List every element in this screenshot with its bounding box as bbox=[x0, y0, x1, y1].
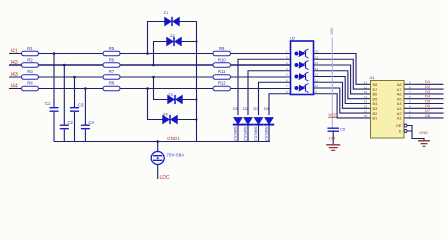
svg-text:Z4: Z4 bbox=[163, 112, 168, 117]
svg-text:15: 15 bbox=[364, 100, 368, 104]
svg-text:C3: C3 bbox=[78, 103, 84, 108]
svg-text:B1: B1 bbox=[373, 116, 378, 121]
svg-text:75V-08A: 75V-08A bbox=[167, 153, 185, 158]
svg-text:I44: I44 bbox=[11, 84, 18, 90]
svg-text:C5: C5 bbox=[340, 127, 346, 132]
svg-text:SMBJ12: SMBJ12 bbox=[264, 127, 268, 141]
svg-text:R3: R3 bbox=[27, 69, 33, 74]
svg-text:12: 12 bbox=[364, 85, 368, 89]
svg-text:LDC: LDC bbox=[160, 175, 170, 181]
svg-text:13: 13 bbox=[364, 90, 368, 94]
svg-text:R5: R5 bbox=[109, 46, 115, 51]
svg-text:U1: U1 bbox=[370, 75, 376, 80]
svg-text:R9: R9 bbox=[219, 46, 225, 51]
svg-text:R2: R2 bbox=[27, 58, 33, 63]
svg-text:Z1: Z1 bbox=[164, 10, 169, 15]
svg-text:104: 104 bbox=[329, 136, 336, 141]
svg-text:11: 11 bbox=[315, 78, 318, 82]
svg-text:10: 10 bbox=[315, 84, 319, 88]
svg-text:VCC: VCC bbox=[329, 28, 333, 36]
svg-text:C4: C4 bbox=[89, 120, 95, 125]
svg-text:GND1: GND1 bbox=[167, 136, 180, 141]
svg-text:R12: R12 bbox=[218, 81, 226, 86]
svg-text:D4: D4 bbox=[264, 106, 270, 111]
svg-text:C1: C1 bbox=[45, 101, 51, 106]
svg-text:Z3: Z3 bbox=[168, 92, 173, 97]
svg-text:15: 15 bbox=[315, 55, 319, 59]
svg-text:SMBJ12: SMBJ12 bbox=[254, 127, 258, 141]
svg-text:GND: GND bbox=[419, 130, 428, 135]
svg-text:13: 13 bbox=[315, 67, 319, 71]
svg-text:OE: OE bbox=[396, 123, 402, 128]
svg-text:D8: D8 bbox=[425, 113, 431, 118]
svg-text:11: 11 bbox=[364, 81, 367, 85]
svg-text:R6: R6 bbox=[109, 58, 115, 63]
svg-text:12: 12 bbox=[315, 73, 319, 77]
svg-text:D2: D2 bbox=[243, 106, 249, 111]
svg-text:14: 14 bbox=[364, 95, 368, 99]
svg-text:R1: R1 bbox=[27, 46, 33, 51]
svg-text:R11: R11 bbox=[218, 69, 226, 74]
svg-text:D1: D1 bbox=[233, 106, 239, 111]
svg-text:E: E bbox=[399, 129, 402, 134]
svg-text:D3: D3 bbox=[254, 106, 260, 111]
svg-text:I41: I41 bbox=[11, 49, 18, 55]
svg-text:R4: R4 bbox=[27, 81, 33, 86]
svg-text:I43: I43 bbox=[11, 72, 18, 78]
svg-text:R7: R7 bbox=[109, 69, 115, 74]
svg-text:C2: C2 bbox=[68, 120, 74, 125]
svg-text:U2: U2 bbox=[290, 36, 296, 41]
svg-text:Z2: Z2 bbox=[170, 33, 175, 38]
svg-text:16: 16 bbox=[364, 105, 368, 109]
svg-text:SMBJ12: SMBJ12 bbox=[233, 127, 237, 141]
svg-text:18: 18 bbox=[364, 114, 368, 118]
svg-text:A1: A1 bbox=[397, 116, 402, 121]
svg-text:VCC: VCC bbox=[328, 112, 337, 117]
svg-text:16: 16 bbox=[315, 50, 319, 54]
svg-text:14: 14 bbox=[315, 61, 319, 65]
svg-text:17: 17 bbox=[364, 109, 368, 113]
svg-text:R8: R8 bbox=[109, 81, 115, 86]
svg-text:R10: R10 bbox=[218, 58, 226, 63]
svg-text:SMBJ12: SMBJ12 bbox=[243, 127, 247, 141]
svg-text:I42: I42 bbox=[11, 60, 18, 66]
